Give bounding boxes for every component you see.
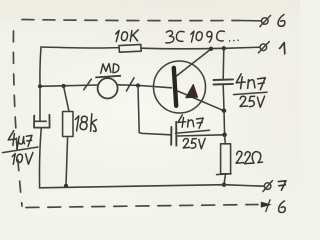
- wire: 18k to bottom rail: [66, 137, 68, 186]
- resistor 22ohm bottom cross stroke: [217, 173, 232, 176]
- resistor 22ohm body: [221, 144, 231, 174]
- wire: C3 to emitter junction: [222, 85, 225, 111]
- terminal 1 slash: [258, 42, 269, 53]
- transistor BC109C circle: [154, 61, 206, 113]
- label 22ohm: [236, 151, 262, 163]
- label 25V (C2): [183, 138, 205, 149]
- microphone MD top bar: [96, 76, 120, 78]
- label 7: [278, 181, 286, 190]
- terminal 7 circle: [264, 183, 271, 190]
- junction emitter node: [222, 108, 227, 113]
- wire: C2 branch down from base: [138, 86, 171, 135]
- junction left rail / base: [38, 84, 42, 88]
- wire: C2 to emitter node: [177, 135, 224, 136]
- transistor collector lead: [176, 49, 211, 76]
- terminal 6 top circle: [262, 18, 269, 25]
- cable slash left of MD: [84, 79, 92, 89]
- capacitor C1 4u7 top plate and wire: [35, 86, 46, 121]
- terminal 6 top wire: [240, 20, 261, 22]
- capacitor C3 4n7 plates: [214, 79, 234, 84]
- wire: 22ohm to bottom rail: [224, 174, 226, 185]
- resistor 10K body: [119, 44, 141, 52]
- wire: base rail right segment to transistor: [117, 85, 171, 88]
- fraction bar 4n7/25V (C3): [234, 92, 268, 94]
- cable slash right of MD: [127, 78, 135, 91]
- label 6 bottom: [279, 201, 286, 213]
- capacitor C2 4n7 plates: [171, 122, 176, 146]
- label BC 109C ...: [166, 31, 238, 43]
- label 25V (C3): [240, 96, 265, 107]
- capacitor C1 cup: [34, 115, 50, 128]
- wire: left rail vertical: [40, 47, 41, 86]
- resistor 18k body: [63, 112, 73, 137]
- microphone MD circle: [98, 78, 118, 98]
- terminal 6 bottom arrow: [261, 202, 272, 208]
- label 4u7: [8, 131, 32, 149]
- junction 22ohm / bottom rail: [222, 183, 226, 187]
- terminal 6 bottom arrow slash: [266, 200, 270, 212]
- transistor base bar: [174, 68, 176, 106]
- wire: C1 to bottom rail: [39, 128, 41, 188]
- junction C2 / 22ohm node: [222, 133, 227, 138]
- junction 18k / bottom rail: [64, 184, 68, 188]
- shield dashed border: left: [13, 31, 22, 206]
- wire: node to 22ohm: [224, 135, 227, 144]
- wire: base rail left segment: [40, 85, 98, 86]
- label 1: [280, 43, 285, 54]
- junction collector / top rail: [209, 47, 213, 51]
- shield dashed border: bottom: [26, 205, 258, 208]
- terminal 7 slash: [263, 181, 272, 192]
- label MD: [101, 64, 119, 74]
- terminal 1 circle: [260, 44, 267, 51]
- wire: top rail: [41, 47, 260, 49]
- wire: base junction to 18k: [64, 86, 70, 112]
- label 4n7 (C3): [236, 74, 265, 90]
- shield dashed border: top: [22, 20, 240, 21]
- terminal 6 top slash: [260, 15, 271, 26]
- junction base / 18k: [61, 84, 65, 88]
- label 4n7 (C2): [178, 115, 203, 128]
- label 10K: [116, 30, 139, 42]
- wire: top rail to C3: [222, 48, 225, 79]
- label 10V: [12, 153, 33, 165]
- junction base/C2: [136, 83, 140, 87]
- wire: emitter node down: [223, 111, 226, 135]
- transistor emitter lead: [178, 91, 224, 111]
- label 18k: [75, 114, 96, 132]
- fraction bar 4u7/10V: [3, 147, 39, 153]
- transistor emitter arrow: [186, 84, 198, 97]
- junction C3 / top rail: [222, 46, 226, 50]
- fraction bar 4n7/25V (C2): [176, 130, 210, 133]
- label 6 top: [278, 15, 285, 27]
- wire: bottom rail: [40, 185, 265, 188]
